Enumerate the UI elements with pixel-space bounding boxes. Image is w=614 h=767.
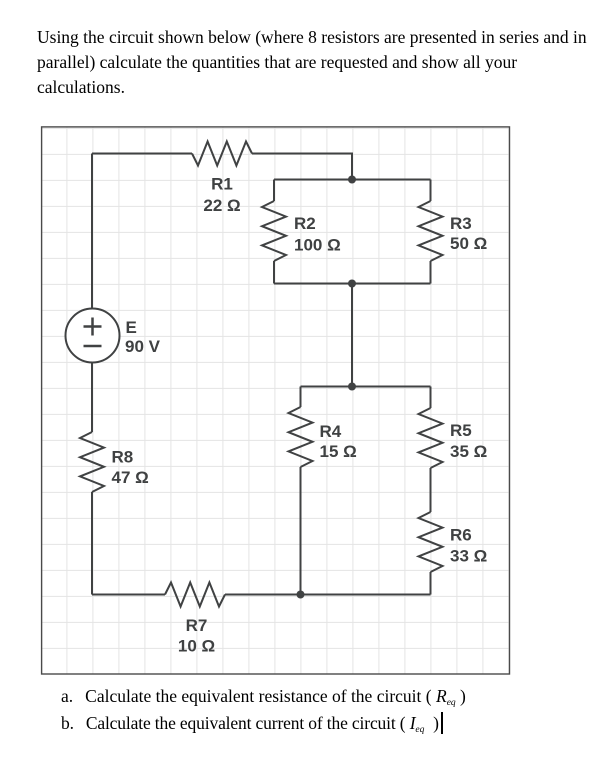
svg-text:R1: R1 (211, 175, 233, 194)
label R8 47Ω (112, 448, 149, 488)
svg-text:33 Ω: 33 Ω (450, 547, 487, 566)
problem statement paragraph (37, 25, 614, 100)
svg-text:47 Ω: 47 Ω (112, 468, 149, 487)
wire R1 to node A (252, 154, 352, 180)
resistor R2 (262, 201, 286, 261)
resistor R8 (80, 432, 104, 492)
svg-text:R3: R3 (450, 214, 472, 233)
node C junction dot (348, 383, 356, 391)
wire R4 top stub (300, 387, 302, 408)
svg-text:R2: R2 (294, 214, 316, 233)
label E 90 V (125, 318, 161, 356)
resistor R6 (419, 512, 443, 572)
wire R5 top stub (430, 387, 432, 409)
wire R2 bottom stub (273, 261, 275, 284)
svg-text:R7: R7 (186, 616, 208, 635)
node B junction dot (348, 280, 356, 288)
wire node D to R7 (225, 594, 301, 596)
label R4 15Ω (320, 422, 357, 461)
svg-text:R4: R4 (320, 422, 342, 441)
svg-text:90 V: 90 V (125, 337, 161, 356)
svg-text:R6: R6 (450, 526, 472, 545)
wire top left to R1 (92, 153, 192, 155)
label R3 50Ω (450, 214, 487, 253)
wire bottom rail right segment (301, 594, 431, 596)
node A junction dot (348, 176, 356, 184)
wire source plus to top left corner (91, 154, 93, 309)
svg-text:35 Ω: 35 Ω (450, 442, 487, 461)
wire R7 to bottom left corner (92, 594, 165, 596)
svg-text:E: E (126, 318, 137, 337)
schematic grid background (41, 127, 509, 674)
resistor R1 (192, 142, 252, 166)
wire R5 to R6 (430, 468, 432, 512)
label R2 100Ω (294, 214, 341, 255)
wire left bottom riser to R8 (91, 492, 93, 595)
svg-text:22 Ω: 22 Ω (203, 196, 240, 215)
schematic outer frame (42, 127, 510, 674)
voltage source plus sign (84, 318, 102, 336)
resistor R3 (419, 201, 443, 261)
wire top rail of R4/R5 parallel pair (301, 386, 431, 388)
wire node A down stub (273, 180, 275, 202)
label R7 10Ω (178, 616, 215, 656)
node D junction dot (297, 591, 305, 599)
questions a and b (61, 685, 466, 739)
svg-text:R5: R5 (450, 421, 472, 440)
wire top rail of R2/R3 parallel pair (274, 179, 431, 181)
label R6 33Ω (450, 526, 487, 566)
wire R4 bottom to node D (300, 467, 302, 595)
label R1 22Ω (203, 175, 240, 216)
voltage source minus sign (84, 345, 102, 348)
wire R8 top to source minus (91, 363, 93, 433)
wire R3 bottom stub (430, 261, 432, 284)
wire bottom rail of R2/R3 parallel pair (274, 283, 431, 285)
svg-text:100 Ω: 100 Ω (294, 236, 341, 255)
svg-text:50 Ω: 50 Ω (450, 234, 487, 253)
wire R3 top stub (430, 180, 432, 202)
resistor R7 (165, 583, 225, 607)
label R5 35Ω (450, 421, 487, 461)
svg-text:15 Ω: 15 Ω (320, 442, 357, 461)
voltage source E body (66, 309, 120, 363)
resistor R4 (289, 407, 313, 467)
svg-text:10 Ω: 10 Ω (178, 637, 215, 656)
wire R6 bottom stub (430, 572, 432, 595)
resistor R5 (419, 408, 443, 468)
svg-text:R8: R8 (112, 448, 134, 467)
wire node B to node C (351, 284, 353, 387)
